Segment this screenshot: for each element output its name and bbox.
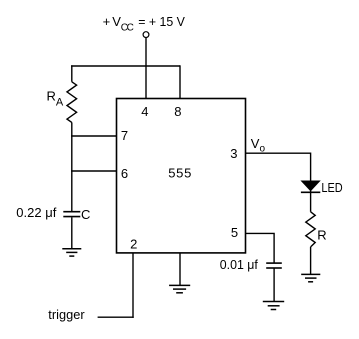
svg-text:= + 15 V: = + 15 V (138, 14, 185, 29)
svg-text:trigger: trigger (48, 307, 85, 322)
Vcc terminal circle (143, 32, 149, 38)
wire pin 3 output (246, 153, 311, 181)
LED D1 (301, 181, 320, 192)
svg-text:+ V: + V (103, 14, 122, 29)
svg-text:0.01 μf: 0.01 μf (220, 257, 258, 272)
wire top-left down to RA (71, 65, 73, 82)
wire box bottom to ground (179, 253, 181, 285)
op-amp U1 555 box (117, 99, 246, 253)
svg-text:555: 555 (168, 166, 191, 181)
resistor RA (67, 82, 77, 123)
resistor R (306, 212, 315, 247)
wire to pin 8 (179, 65, 181, 98)
wire pin 5 (246, 233, 275, 263)
ground right (301, 274, 320, 281)
svg-text:CC: CC (121, 23, 134, 34)
wire R to ground (310, 247, 312, 275)
svg-text:3: 3 (230, 146, 237, 161)
wire cap to ground (273, 268, 275, 302)
wire top horizontal (71, 65, 180, 67)
ground left (62, 249, 81, 256)
ground center (169, 285, 190, 292)
wire to pin 6 (71, 170, 116, 172)
wire C to ground (71, 217, 73, 248)
svg-text:C: C (81, 207, 90, 222)
wire RA to capacitor C (71, 122, 73, 211)
svg-text:7: 7 (121, 128, 128, 143)
svg-text:5: 5 (231, 225, 238, 240)
svg-text:R: R (317, 227, 326, 242)
svg-text:6: 6 (121, 166, 128, 181)
wire trigger horizontal (98, 316, 134, 318)
capacitor 0.01 uf (266, 263, 282, 268)
ground bottom right (263, 302, 284, 310)
capacitor C (63, 212, 80, 217)
svg-text:0.22 μf: 0.22 μf (16, 205, 56, 220)
wire LED to R (310, 191, 312, 212)
svg-text:2: 2 (130, 236, 137, 251)
svg-text:8: 8 (174, 104, 181, 119)
wire pin 2 down (132, 253, 134, 318)
wire to pin 7 (71, 135, 116, 137)
svg-text:LED: LED (321, 180, 342, 195)
svg-text:4: 4 (141, 104, 148, 119)
wire Vcc to pin 4 (145, 38, 147, 99)
